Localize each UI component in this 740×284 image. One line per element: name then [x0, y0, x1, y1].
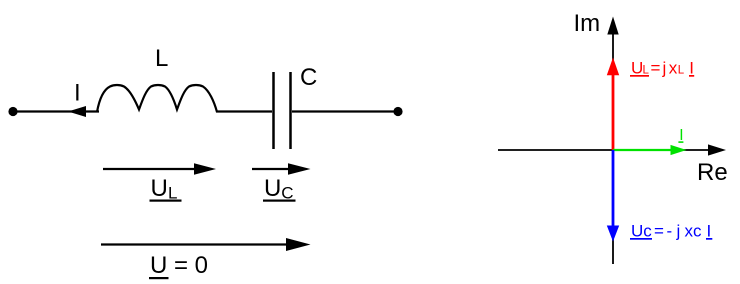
label UL — [150, 175, 182, 203]
label Uc = - j xc I (blue) — [630, 221, 712, 240]
phasor I (green, right) — [613, 145, 687, 155]
label UL = j xL I (red) — [630, 58, 694, 77]
svg-text:I: I — [707, 221, 712, 240]
current arrow I (arrowhead pointing left on wire) — [68, 106, 86, 117]
svg-text:C: C — [300, 64, 317, 91]
svg-text:I: I — [74, 80, 81, 107]
svg-text:xc: xc — [685, 221, 703, 240]
wire capacitor to right terminal — [292, 110, 398, 112]
svg-text:j: j — [676, 221, 681, 240]
svg-text:L: L — [643, 64, 650, 76]
svg-text:I: I — [689, 58, 694, 77]
svg-text:x: x — [669, 58, 678, 77]
svg-text:Re: Re — [697, 159, 728, 186]
svg-text:j: j — [662, 58, 667, 77]
capacitor C (two plates) — [274, 72, 291, 149]
svg-text:L: L — [155, 45, 168, 72]
inductor L (coil, 3 humps) — [97, 85, 217, 112]
voltage arrow U total — [101, 238, 311, 251]
phasor UC (blue, down) — [607, 150, 619, 242]
label U = 0 — [149, 252, 208, 279]
label I (green) — [678, 127, 683, 144]
svg-text:Uc: Uc — [631, 221, 652, 240]
svg-text:U = 0: U = 0 — [150, 252, 208, 279]
wire left terminal to inductor — [13, 110, 99, 112]
node left terminal — [8, 107, 17, 116]
svg-text:=: = — [654, 221, 664, 240]
voltage arrow UL — [103, 163, 216, 175]
svg-text:U: U — [264, 175, 281, 202]
node right terminal — [393, 107, 402, 116]
svg-text:U: U — [151, 175, 168, 202]
label UC — [263, 175, 296, 203]
svg-text:=: = — [651, 58, 661, 77]
svg-text:-: - — [667, 221, 673, 240]
phasor UL (red, up) — [607, 58, 619, 151]
svg-text:Im: Im — [574, 10, 601, 37]
voltage arrow UC — [252, 163, 311, 175]
wire inductor to capacitor — [216, 110, 272, 112]
svg-text:L: L — [678, 64, 685, 76]
axis Im (vertical) — [607, 17, 618, 265]
svg-text:U: U — [631, 58, 643, 77]
axis Re (horizontal) — [498, 144, 726, 155]
svg-text:I: I — [679, 127, 683, 144]
